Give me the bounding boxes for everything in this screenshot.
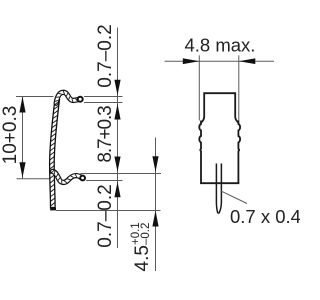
label 4.5 +0.1/-0.2	[130, 222, 153, 271]
clip strip (hatched cross-section)	[50, 100, 60, 208]
dimension line 10+0.3	[22, 97, 24, 179]
body left edge with crimp bumps	[199, 121, 201, 184]
svg-text:8.7+0.3: 8.7+0.3	[95, 106, 116, 163]
dimension line column x=117.5 (0.7-0.2 / 8.7+0.3 / 0.7-0.2)	[117, 28, 119, 249]
svg-text:0.7–0.2: 0.7–0.2	[95, 24, 116, 87]
hatching on bottom hook	[55, 171, 77, 184]
dimension arrows 4.8 max	[183, 58, 200, 64]
body outline: top tab (inner rectangle)	[204, 93, 235, 116]
svg-text:4.5: 4.5	[132, 245, 153, 271]
top hook (curled tab)	[56, 92, 82, 103]
pin / solder lug	[216, 164, 221, 214]
flare joining tab to body	[201, 117, 204, 123]
extension line top-left (tip of top hook)	[16, 97, 161, 211]
svg-text:10+0.3: 10+0.3	[0, 106, 21, 165]
svg-text:4.8 max.: 4.8 max.	[185, 35, 256, 56]
svg-text:0.7 x 0.4: 0.7 x 0.4	[230, 206, 300, 227]
strip bottom end cap	[50, 208, 56, 211]
svg-text:–0.2: –0.2	[140, 223, 152, 245]
body bottom edge	[200, 182, 239, 184]
bottom hook (curled tab)	[53, 171, 85, 182]
extension lines for 4.8 max	[165, 55, 275, 120]
dimension line 4.5 +0.1/-0.2	[155, 138, 157, 272]
svg-text:0.7–0.2: 0.7–0.2	[95, 184, 116, 247]
hatching on top hook	[55, 91, 78, 102]
leader line to pin	[221, 191, 247, 204]
body right edge with crimp bumps	[238, 121, 240, 184]
hatching on strip	[50, 101, 60, 206]
